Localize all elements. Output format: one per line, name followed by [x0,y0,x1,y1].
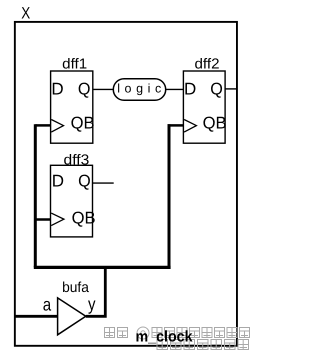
clock net right riser [168,124,171,267]
wire dff1.Q to logic [93,88,114,90]
svg-text:logic: logic [117,81,161,95]
wire dff3.Q stub [93,182,114,184]
wire input a from boundary to bufa [15,315,58,318]
svg-text:D: D [184,79,196,98]
svg-text:bufa: bufa [62,280,90,296]
dff1 clock triangle [51,120,63,133]
svg-text:Q: Q [210,79,223,98]
flip-flop dff1 body [51,71,93,143]
clock net left riser [34,124,37,267]
svg-text:dff3: dff3 [64,152,90,168]
svg-text:QB: QB [72,208,96,227]
watermark row 1 (gray) [105,327,250,339]
svg-text:QB: QB [203,113,227,132]
svg-text:a: a [43,295,52,315]
svg-text:dff2: dff2 [195,57,220,73]
svg-text:m_clock: m_clock [136,329,193,346]
clock net branch to dff3.CK [34,218,51,221]
clock net trunk: dff1.CK to left riser to bottom rail to right riser to dff2.CK [35,124,50,127]
svg-text:D: D [51,79,63,98]
wire dff2.Q to module boundary [225,88,236,90]
buffer bufa triangle [58,298,86,335]
svg-text:D: D [52,171,64,190]
module boundary box x [15,22,237,346]
clock net bottom rail [34,266,171,269]
svg-text:Q: Q [78,171,91,190]
dff3 clock triangle [51,213,64,226]
wire logic to dff2.D [166,88,184,90]
flip-flop dff2 body [183,71,225,143]
clock net stub to dff2.CK [168,124,184,127]
logic cloud U1 (stadium) [113,79,165,101]
svg-text:X: X [21,4,30,22]
svg-text:dff1: dff1 [62,57,87,73]
clock net drop from rail to bufa output [86,267,106,316]
svg-text:y: y [88,294,96,314]
svg-text:Q: Q [78,79,91,98]
flip-flop dff3 body [51,165,93,237]
svg-text:QB: QB [71,113,95,132]
watermark row 2 (gray) [157,340,249,350]
dff2 clock triangle [184,120,196,133]
